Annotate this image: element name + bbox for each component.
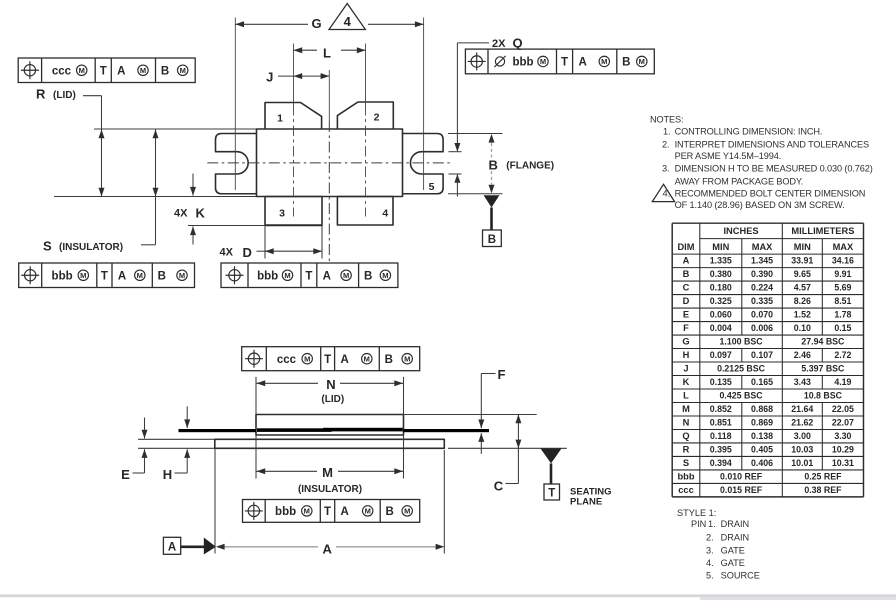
svg-text:0.060: 0.060: [710, 310, 732, 320]
svg-text:M: M: [343, 271, 349, 280]
svg-text:1.78: 1.78: [834, 310, 851, 320]
svg-text:2.72: 2.72: [834, 350, 851, 360]
dimension Q leader and arrows: [456, 43, 458, 151]
svg-text:S: S: [43, 239, 52, 254]
note triangle 4 in notes: [652, 184, 674, 201]
svg-text:0.097: 0.097: [710, 350, 732, 360]
svg-text:DRAIN: DRAIN: [721, 519, 750, 529]
extension lines lid sides lower: [255, 435, 257, 479]
svg-text:0.38 REF: 0.38 REF: [804, 485, 842, 495]
svg-text:OF 1.140 (28.96) BASED ON 3M S: OF 1.140 (28.96) BASED ON 3M SCREW.: [675, 200, 845, 210]
svg-text:(FLANGE): (FLANGE): [506, 161, 554, 172]
svg-text:M: M: [404, 507, 410, 516]
svg-text:2X: 2X: [492, 38, 506, 50]
svg-text:M: M: [179, 271, 185, 280]
svg-text:R: R: [36, 87, 46, 102]
right slot centerline: [423, 18, 425, 191]
svg-text:10.29: 10.29: [832, 445, 854, 455]
svg-text:4X: 4X: [220, 247, 234, 259]
svg-text:2: 2: [374, 111, 380, 123]
svg-text:22.07: 22.07: [832, 418, 854, 428]
pin 2-4 centerline: [365, 44, 367, 106]
svg-text:0.2125 BSC: 0.2125 BSC: [717, 364, 766, 374]
flange body outline: [257, 129, 403, 197]
svg-text:N: N: [326, 377, 335, 392]
svg-text:N: N: [683, 418, 690, 428]
svg-text:GATE: GATE: [721, 546, 745, 556]
svg-text:T: T: [548, 488, 555, 500]
left mounting tab with slot: [216, 134, 257, 194]
svg-text:4.: 4.: [706, 558, 714, 568]
svg-text:A: A: [683, 256, 690, 266]
note triangle 4 at G: [329, 4, 365, 30]
left slot centerline: [234, 18, 236, 191]
dimension N line: [257, 382, 319, 384]
svg-text:M: M: [304, 354, 310, 363]
extension line flange top left: [138, 438, 215, 440]
svg-text:9.65: 9.65: [794, 269, 811, 279]
svg-text:5.: 5.: [706, 571, 714, 581]
svg-text:A: A: [118, 270, 126, 282]
dimension D line: [257, 250, 266, 252]
svg-text:STYLE 1:: STYLE 1:: [677, 508, 716, 518]
dimension H arrows: [186, 406, 188, 428]
svg-text:MILLIMETERS: MILLIMETERS: [791, 226, 854, 236]
lid outline side view: [256, 415, 404, 436]
svg-text:(INSULATOR): (INSULATOR): [59, 242, 123, 253]
svg-text:(LID): (LID): [321, 394, 344, 405]
svg-text:1.100 BSC: 1.100 BSC: [720, 337, 764, 347]
svg-text:G: G: [312, 16, 322, 31]
lead pin 1: [265, 103, 322, 130]
svg-text:8.26: 8.26: [794, 296, 811, 306]
svg-text:0.395: 0.395: [710, 445, 732, 455]
svg-text:1.335: 1.335: [710, 256, 732, 266]
dimension C line: [517, 415, 519, 449]
extension line pin3 bottom: [188, 225, 265, 227]
extension line tab bottom right: [448, 193, 503, 195]
svg-text:F: F: [498, 367, 506, 382]
svg-text:B: B: [364, 270, 372, 282]
page bottom border: [0, 594, 896, 597]
svg-text:T: T: [100, 65, 107, 77]
svg-text:MAX: MAX: [752, 242, 773, 252]
feature control frame bbb below pin 3: [221, 263, 398, 288]
svg-text:B: B: [683, 269, 690, 279]
svg-text:A: A: [117, 65, 125, 77]
svg-text:H: H: [683, 350, 690, 360]
svg-text:M: M: [682, 404, 690, 414]
extension lines lid sides upper: [255, 377, 257, 415]
svg-text:5.69: 5.69: [834, 283, 851, 293]
svg-text:B: B: [386, 506, 394, 518]
svg-text:0.380: 0.380: [710, 269, 732, 279]
svg-text:4: 4: [344, 14, 352, 29]
svg-text:0.325: 0.325: [710, 296, 732, 306]
svg-text:T: T: [324, 506, 331, 518]
svg-text:3: 3: [279, 208, 285, 220]
svg-text:9.91: 9.91: [834, 269, 851, 279]
svg-text:G: G: [682, 337, 689, 347]
svg-text:M: M: [404, 354, 410, 363]
svg-text:M: M: [304, 507, 310, 516]
svg-text:B: B: [161, 65, 169, 77]
svg-text:ccc: ccc: [277, 354, 297, 366]
svg-text:0.425 BSC: 0.425 BSC: [720, 391, 764, 401]
svg-text:2.46: 2.46: [794, 350, 811, 360]
svg-text:M: M: [639, 57, 645, 66]
svg-text:RECOMMENDED BOLT CENTER DIMENS: RECOMMENDED BOLT CENTER DIMENSION: [675, 188, 866, 198]
datum A symbol: [163, 537, 180, 554]
svg-text:0.015 REF: 0.015 REF: [720, 485, 763, 495]
svg-text:T: T: [101, 270, 108, 282]
svg-text:(LID): (LID): [53, 90, 76, 101]
svg-text:0.180: 0.180: [710, 283, 732, 293]
svg-text:M: M: [180, 66, 186, 75]
feature control frame ccc above side view: [242, 347, 420, 371]
svg-text:MIN: MIN: [794, 242, 811, 252]
extension line slot top right: [449, 151, 462, 153]
datum B symbol: [484, 195, 500, 207]
svg-text:1: 1: [277, 112, 283, 124]
seating plane line: [448, 447, 567, 449]
dimension E arrows: [144, 418, 146, 439]
dimension K arrows: [192, 174, 194, 196]
svg-text:INCHES: INCHES: [723, 226, 758, 236]
svg-text:ccc: ccc: [52, 65, 72, 77]
svg-text:0.070: 0.070: [751, 310, 773, 320]
svg-text:D: D: [243, 245, 252, 260]
svg-text:A: A: [323, 541, 333, 556]
svg-text:1.52: 1.52: [794, 310, 811, 320]
svg-text:0.010 REF: 0.010 REF: [720, 472, 763, 482]
svg-text:M: M: [140, 66, 146, 75]
lead inside lid: [257, 428, 332, 432]
lead right side view: [404, 429, 490, 432]
svg-text:21.64: 21.64: [791, 404, 813, 414]
svg-text:R: R: [683, 445, 690, 455]
svg-text:PLANE: PLANE: [570, 497, 602, 508]
svg-text:B: B: [622, 57, 630, 69]
dimension M line: [257, 470, 318, 472]
lead pin 4: [337, 197, 393, 226]
svg-text:DIM: DIM: [677, 242, 694, 252]
svg-text:0.394: 0.394: [710, 458, 732, 468]
dimension S line: [155, 130, 157, 245]
svg-text:0.10: 0.10: [794, 323, 811, 333]
svg-text:M: M: [540, 57, 546, 66]
right mounting tab with slot (pin 5): [403, 134, 444, 194]
svg-text:5: 5: [429, 181, 435, 193]
svg-text:0.15: 0.15: [834, 323, 851, 333]
svg-text:21.62: 21.62: [791, 418, 813, 428]
extension lines flange sides lower: [214, 449, 216, 554]
dimension J line: [278, 75, 329, 77]
svg-text:C: C: [494, 478, 504, 493]
svg-text:PER ASME Y14.5M–1994.: PER ASME Y14.5M–1994.: [675, 151, 782, 161]
svg-text:4.: 4.: [663, 188, 671, 198]
svg-text:S: S: [683, 458, 689, 468]
extension line flange bottom left: [138, 447, 215, 449]
svg-text:0.406: 0.406: [751, 458, 773, 468]
svg-text:4X: 4X: [174, 208, 188, 220]
svg-text:0.868: 0.868: [751, 404, 773, 414]
svg-text:T: T: [561, 57, 568, 69]
svg-text:8.51: 8.51: [834, 296, 851, 306]
dimension table: [672, 223, 863, 497]
extension lines pin3 sides: [264, 226, 266, 259]
svg-text:3.30: 3.30: [834, 431, 851, 441]
svg-text:4.19: 4.19: [834, 377, 851, 387]
svg-text:3.: 3.: [706, 546, 714, 556]
svg-text:3.00: 3.00: [794, 431, 811, 441]
svg-text:D: D: [683, 296, 690, 306]
svg-text:J: J: [266, 70, 273, 85]
svg-text:MAX: MAX: [833, 242, 854, 252]
svg-text:DRAIN: DRAIN: [721, 532, 750, 542]
svg-text:0.25 REF: 0.25 REF: [804, 472, 842, 482]
svg-text:F: F: [683, 323, 689, 333]
feature control frame bbb lower-left: [19, 263, 195, 288]
dimension B line: [489, 134, 495, 143]
svg-text:(INSULATOR): (INSULATOR): [298, 484, 362, 495]
svg-text:10.31: 10.31: [832, 458, 854, 468]
svg-text:1.345: 1.345: [751, 256, 773, 266]
svg-text:1.: 1.: [708, 519, 716, 529]
svg-text:22.05: 22.05: [832, 404, 854, 414]
svg-text:A: A: [323, 270, 331, 282]
svg-text:GATE: GATE: [721, 558, 745, 568]
svg-text:bbb: bbb: [257, 270, 278, 282]
flange side view: [215, 439, 444, 448]
svg-text:K: K: [683, 377, 690, 387]
svg-text:CONTROLLING DIMENSION: INCH.: CONTROLLING DIMENSION: INCH.: [675, 127, 823, 137]
svg-text:H: H: [163, 467, 172, 482]
svg-text:INTERPRET DIMENSIONS AND TOLER: INTERPRET DIMENSIONS AND TOLERANCES: [675, 139, 869, 149]
svg-text:K: K: [196, 206, 206, 221]
svg-text:SOURCE: SOURCE: [721, 571, 760, 581]
dimension G line: [235, 23, 308, 25]
svg-text:0.852: 0.852: [710, 404, 732, 414]
svg-text:34.16: 34.16: [832, 256, 854, 266]
svg-text:M: M: [80, 271, 86, 280]
svg-text:T: T: [324, 354, 331, 366]
svg-text:M: M: [365, 507, 371, 516]
svg-text:NOTES:: NOTES:: [650, 114, 683, 124]
vertical centerline: [328, 70, 330, 121]
svg-text:0.224: 0.224: [751, 283, 773, 293]
svg-text:0.135: 0.135: [710, 377, 732, 387]
svg-text:M: M: [601, 57, 607, 66]
svg-text:10.8 BSC: 10.8 BSC: [804, 391, 843, 401]
feature control frame 2X Q (position dia bbb M T A M B M): [465, 49, 654, 74]
svg-text:L: L: [323, 45, 331, 60]
lead pin 3: [265, 197, 322, 226]
svg-text:10.03: 10.03: [791, 445, 813, 455]
svg-text:0.869: 0.869: [751, 418, 773, 428]
svg-text:0.006: 0.006: [751, 323, 773, 333]
svg-text:5.397 BSC: 5.397 BSC: [801, 364, 845, 374]
svg-text:33.91: 33.91: [791, 256, 813, 266]
svg-text:A: A: [341, 506, 349, 518]
lead pin 2: [337, 102, 393, 129]
svg-text:A: A: [340, 354, 348, 366]
svg-text:0.004: 0.004: [710, 323, 732, 333]
svg-text:0.851: 0.851: [710, 418, 732, 428]
svg-text:10.01: 10.01: [791, 458, 813, 468]
extension line body top-left: [94, 128, 257, 130]
pin 1-3 centerline: [293, 44, 295, 106]
horizontal centerline: [207, 162, 451, 164]
svg-text:M: M: [382, 271, 388, 280]
svg-text:M: M: [137, 271, 143, 280]
dimension L line: [294, 49, 318, 51]
dimension A line: [219, 546, 318, 548]
svg-text:DIMENSION H TO BE MEASURED 0.0: DIMENSION H TO BE MEASURED 0.030 (0.762): [675, 164, 873, 174]
svg-text:C: C: [683, 283, 690, 293]
svg-text:1.: 1.: [663, 127, 670, 137]
svg-text:Q: Q: [682, 431, 689, 441]
svg-text:B: B: [385, 354, 393, 366]
svg-text:B: B: [488, 234, 496, 246]
svg-text:bbb: bbb: [512, 57, 533, 69]
svg-text:L: L: [683, 391, 689, 401]
svg-text:T: T: [305, 270, 312, 282]
svg-text:bbb: bbb: [275, 506, 296, 518]
lead left side view: [179, 429, 257, 432]
extension line slot bottom right: [449, 173, 462, 175]
feature control frame ccc top-left: [18, 58, 195, 83]
svg-text:0.165: 0.165: [751, 377, 773, 387]
svg-text:MIN: MIN: [712, 242, 729, 252]
svg-text:0.118: 0.118: [710, 431, 732, 441]
svg-text:0.390: 0.390: [751, 269, 773, 279]
svg-text:3.43: 3.43: [794, 377, 811, 387]
svg-text:B: B: [158, 270, 166, 282]
svg-text:0.405: 0.405: [751, 445, 773, 455]
svg-text:B: B: [489, 157, 498, 172]
svg-text:bbb: bbb: [677, 472, 694, 482]
svg-text:M: M: [284, 271, 290, 280]
svg-text:4: 4: [382, 208, 388, 220]
svg-text:2.: 2.: [706, 532, 714, 542]
svg-text:A: A: [578, 57, 586, 69]
svg-text:27.94 BSC: 27.94 BSC: [801, 337, 845, 347]
svg-text:M: M: [364, 354, 370, 363]
svg-text:3.: 3.: [662, 164, 669, 174]
svg-text:M: M: [79, 66, 85, 75]
extension line tab top right: [448, 133, 503, 135]
dimension R line: [101, 96, 103, 197]
svg-text:E: E: [121, 467, 130, 482]
svg-text:2.: 2.: [662, 139, 669, 149]
svg-text:4.57: 4.57: [794, 283, 811, 293]
extension line body bottom-left: [54, 196, 257, 198]
svg-text:bbb: bbb: [52, 270, 73, 282]
svg-text:M: M: [322, 465, 333, 480]
svg-text:0.138: 0.138: [751, 431, 773, 441]
svg-text:AWAY FROM PACKAGE BODY.: AWAY FROM PACKAGE BODY.: [675, 176, 804, 186]
svg-text:0.335: 0.335: [751, 296, 773, 306]
svg-text:J: J: [683, 364, 688, 374]
svg-text:ccc: ccc: [678, 485, 694, 495]
svg-text:PIN: PIN: [691, 519, 706, 529]
svg-text:A: A: [168, 542, 176, 554]
svg-text:0.107: 0.107: [751, 350, 773, 360]
svg-text:E: E: [683, 310, 689, 320]
feature control frame bbb below side view: [243, 500, 420, 523]
extension line lid top right: [404, 414, 537, 416]
datum T seating plane symbol: [541, 449, 562, 464]
